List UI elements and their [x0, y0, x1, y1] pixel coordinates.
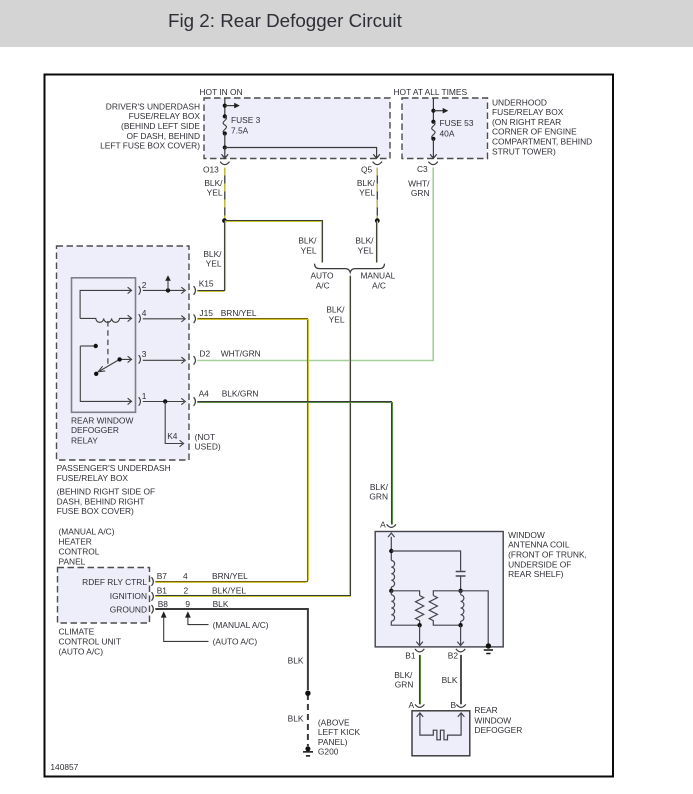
connector B1 (antenna) — [415, 649, 424, 652]
window antenna coil box — [375, 532, 503, 647]
label BLK/YEL at O13 — [204, 178, 223, 198]
svg-text:BLK/: BLK/ — [357, 178, 376, 188]
svg-text:Q5: Q5 — [361, 165, 373, 175]
wire A4 BLK/GRN right and down to antenna coil A — [197, 402, 391, 525]
svg-text:AUTO: AUTO — [310, 271, 334, 281]
header band — [0, 0, 693, 47]
wire: pin2 to K15 connector — [143, 287, 186, 293]
svg-text:BLK/: BLK/ — [355, 236, 374, 246]
label BLK lower — [288, 713, 304, 723]
svg-text:STRUT TOWER): STRUT TOWER) — [492, 146, 556, 156]
svg-text:B2: B2 — [448, 650, 459, 660]
svg-text:B1: B1 — [157, 586, 168, 596]
arrow manual a/c ground — [188, 617, 209, 625]
svg-text:BLK/: BLK/ — [394, 670, 413, 680]
svg-text:GRN: GRN — [369, 492, 388, 502]
svg-text:140857: 140857 — [50, 762, 78, 772]
connector C3 — [428, 162, 437, 165]
svg-text:DEFOGGER: DEFOGGER — [71, 425, 119, 435]
svg-text:BLK/: BLK/ — [370, 482, 389, 492]
relay pin3 contact — [122, 356, 132, 362]
svg-text:BLK: BLK — [288, 656, 304, 666]
wire: B2 exit with down arrow — [457, 625, 464, 645]
svg-text:CORNER OF ENGINE: CORNER OF ENGINE — [492, 127, 577, 137]
node: left junction — [389, 589, 393, 593]
connector D2 — [194, 356, 196, 365]
svg-text:(AUTO A/C): (AUTO A/C) — [213, 637, 258, 647]
svg-text:BLK/: BLK/ — [298, 236, 317, 246]
wire: feed inside underhood box — [432, 98, 434, 122]
svg-text:GRN: GRN — [395, 680, 414, 690]
svg-text:UNDERHOOD: UNDERHOOD — [492, 97, 547, 107]
node: pin1 branch to K4 — [163, 399, 167, 403]
svg-text:B: B — [451, 700, 457, 710]
svg-text:BLK/: BLK/ — [204, 178, 223, 188]
node: feed junction — [223, 104, 227, 108]
svg-text:FUSE BOX COVER): FUSE BOX COVER) — [57, 506, 134, 516]
fuse/relay box (passenger's underdash) — [57, 246, 190, 460]
label DRIVER'S UNDERDASH FUSE/RELAY BOX — [100, 101, 200, 150]
wire: Q5 junction down to brace (BLK/YEL double) — [376, 221, 378, 263]
svg-text:PASSENGER'S UNDERDASH: PASSENGER'S UNDERDASH — [57, 463, 171, 473]
wire: brace output BLK/YEL down to B1 row then left to climate unit — [155, 276, 350, 596]
wire: O13 junction down to K15 (BLK/YEL double) — [197, 221, 224, 291]
svg-text:ANTENNA COIL: ANTENNA COIL — [508, 540, 570, 550]
fuse F53 (FUSE 53 40A) — [431, 120, 435, 124]
svg-text:HOT IN ON: HOT IN ON — [200, 87, 243, 97]
svg-text:BLK: BLK — [288, 713, 304, 723]
label BLK/YEL at Q5 — [357, 178, 376, 198]
relay coil L-coil — [80, 315, 132, 322]
wire: internal ground link — [461, 591, 489, 645]
svg-text:RELAY: RELAY — [71, 435, 98, 445]
node: B1 junction — [417, 623, 421, 627]
svg-text:USED): USED) — [195, 442, 221, 452]
svg-text:COMPARTMENT, BEHIND: COMPARTMENT, BEHIND — [492, 137, 592, 147]
node: pin2 branch junction with up arrow — [166, 288, 170, 292]
relay U1 rear window defogger relay body — [72, 278, 136, 413]
svg-text:A/C: A/C — [372, 281, 386, 291]
svg-text:BLK/: BLK/ — [203, 249, 222, 259]
svg-text:YEL: YEL — [206, 259, 222, 269]
svg-text:PANEL: PANEL — [59, 557, 86, 567]
wire B1 BLK/GRN down to defogger A — [419, 655, 421, 704]
wire: A entry with up arrow — [388, 533, 395, 560]
connector J15 — [194, 315, 196, 324]
label BLK/GRN at B1 — [394, 670, 413, 690]
svg-text:RDEF RLY CTRL: RDEF RLY CTRL — [82, 577, 147, 587]
svg-text:DRIVER'S UNDERDASH: DRIVER'S UNDERDASH — [106, 101, 200, 111]
connector B2 (antenna) — [456, 649, 465, 652]
wire: fuse to bottom junction — [224, 134, 226, 148]
ground (antenna internal) — [486, 643, 491, 648]
node: O13 branch junction — [222, 218, 227, 223]
wire O13 BLK/YEL (dashed black/yellow) — [224, 168, 226, 219]
connector B7 — [152, 577, 154, 586]
svg-text:C3: C3 — [417, 164, 428, 174]
svg-text:REAR WINDOW: REAR WINDOW — [71, 416, 133, 426]
svg-text:BLK: BLK — [213, 599, 229, 609]
relay common line to pin1 — [80, 346, 131, 405]
svg-text:(BEHIND LEFT SIDE: (BEHIND LEFT SIDE — [121, 121, 200, 131]
svg-text:UNDERSIDE OF: UNDERSIDE OF — [508, 559, 571, 569]
svg-text:CONTROL UNIT: CONTROL UNIT — [59, 637, 122, 647]
resistor R2 — [429, 596, 460, 626]
node: Q5 junction — [375, 218, 380, 223]
fuse F3 (FUSE 3 7.5A) — [223, 114, 227, 118]
arrow auto a/c ground — [164, 617, 209, 641]
relay actuation link (dashed) — [107, 321, 109, 366]
relay fixed contact stub — [80, 345, 93, 347]
wire B8 BLK right and down — [155, 609, 308, 684]
wire: fuse 53 down to C3 with arrow — [430, 139, 437, 159]
svg-text:(BEHIND RIGHT SIDE OF: (BEHIND RIGHT SIDE OF — [57, 487, 156, 497]
svg-text:YEL: YEL — [207, 188, 223, 198]
svg-text:WINDOW: WINDOW — [474, 715, 511, 725]
connector O13 — [220, 162, 229, 165]
inductor L2 — [391, 595, 394, 621]
relay pin sockets at case edge — [139, 286, 141, 406]
wire: across box to Q5 drop — [225, 148, 380, 159]
svg-text:4: 4 — [142, 308, 147, 318]
svg-text:B8: B8 — [158, 599, 169, 609]
svg-text:FUSE/RELAY BOX: FUSE/RELAY BOX — [129, 111, 201, 121]
connector Q5 — [373, 162, 382, 165]
svg-text:YEL: YEL — [359, 188, 375, 198]
svg-text:FUSE/RELAY BOX: FUSE/RELAY BOX — [492, 107, 564, 117]
svg-text:YEL: YEL — [301, 245, 317, 255]
svg-text:HEATER: HEATER — [59, 537, 92, 547]
connector A4 — [194, 397, 196, 406]
svg-text:G200: G200 — [318, 746, 339, 756]
svg-text:REAR SHELF): REAR SHELF) — [508, 569, 564, 579]
svg-text:CLIMATE: CLIMATE — [59, 627, 95, 637]
cell 2: resistor R2 with inductor L3 — [433, 591, 460, 596]
wire: down to O13 with arrow — [222, 148, 229, 159]
wire: top link to capacitor — [391, 551, 460, 571]
svg-text:WHT/: WHT/ — [408, 179, 430, 189]
svg-text:MANUAL: MANUAL — [360, 271, 395, 281]
connector B1 — [152, 592, 154, 601]
svg-text:2: 2 — [184, 586, 189, 596]
ground G200 — [305, 746, 310, 751]
svg-text:BLK/: BLK/ — [326, 305, 345, 315]
svg-text:(ON RIGHT REAR: (ON RIGHT REAR — [492, 117, 561, 127]
node: feed junction — [431, 109, 435, 113]
label BLK/GRN above antenna — [369, 482, 388, 502]
svg-text:BLK/YEL: BLK/YEL — [212, 586, 246, 596]
node: B2 junction — [458, 623, 462, 627]
label WHT/GRN at C3 — [408, 179, 430, 199]
connector K15 — [194, 286, 196, 295]
svg-text:WINDOW: WINDOW — [508, 530, 545, 540]
label BLK/YEL at K15 — [203, 249, 222, 269]
svg-text:WHT/GRN: WHT/GRN — [221, 348, 261, 358]
connector A (antenna) — [387, 524, 396, 527]
wire: pin4 to J15 connector — [143, 316, 186, 322]
climate control unit box — [58, 568, 150, 624]
svg-text:A4: A4 — [199, 388, 210, 398]
svg-text:(ABOVE: (ABOVE — [318, 718, 350, 728]
svg-text:BRN/YEL: BRN/YEL — [221, 308, 257, 318]
svg-text:O13: O13 — [203, 165, 219, 175]
wire: pin1 to A4 connector — [143, 398, 186, 404]
wire: Q5 dashed BLK/YEL — [376, 168, 378, 219]
svg-text:B1: B1 — [405, 650, 416, 660]
svg-text:FUSE 53: FUSE 53 — [440, 118, 474, 128]
label BLK upper — [288, 656, 304, 666]
relay switch arm — [98, 360, 118, 371]
svg-text:HOT AT ALL TIMES: HOT AT ALL TIMES — [394, 87, 468, 97]
svg-text:A: A — [409, 700, 415, 710]
inductor L1 (antenna feed coil) — [391, 561, 394, 587]
wire B2 BLK down to defogger B — [460, 655, 462, 704]
capacitor C1 — [456, 572, 466, 577]
inductor L3 — [461, 595, 464, 621]
node: fuse output junction — [223, 145, 227, 149]
resistor R1 — [416, 596, 424, 626]
wire J15 BRN/YEL right and down to B7 — [155, 319, 307, 582]
svg-text:REAR: REAR — [474, 705, 497, 715]
svg-text:(MANUAL A/C): (MANUAL A/C) — [213, 620, 269, 630]
svg-text:FUSE 3: FUSE 3 — [231, 115, 261, 125]
node: capacitor junction — [458, 589, 462, 593]
wire C3 WHT/GRN down and left to D2 — [197, 168, 433, 361]
svg-text:LEFT KICK: LEFT KICK — [318, 727, 361, 737]
svg-text:FUSE/RELAY BOX: FUSE/RELAY BOX — [57, 473, 129, 483]
connector B8 — [152, 605, 154, 614]
svg-text:(MANUAL A/C): (MANUAL A/C) — [59, 527, 115, 537]
node: ground splice junction — [305, 691, 310, 696]
svg-text:9: 9 — [185, 599, 190, 609]
svg-text:CONTROL: CONTROL — [59, 547, 100, 557]
svg-text:4: 4 — [183, 571, 188, 581]
svg-text:Fig 2: Rear Defogger Circuit: Fig 2: Rear Defogger Circuit — [168, 10, 403, 31]
svg-text:LEFT FUSE BOX COVER): LEFT FUSE BOX COVER) — [100, 141, 200, 151]
label BLK/YEL right branch — [355, 236, 374, 256]
svg-text:DASH, BEHIND RIGHT: DASH, BEHIND RIGHT — [57, 496, 145, 506]
label BLK/YEL center — [326, 305, 345, 325]
svg-text:3: 3 — [142, 349, 147, 359]
wire: K4 not used — [165, 402, 183, 447]
svg-text:A: A — [380, 519, 386, 529]
svg-text:A/C: A/C — [316, 281, 330, 291]
svg-text:GROUND: GROUND — [110, 605, 147, 615]
relay internal: pin2 feed line — [80, 287, 132, 318]
cell 1: inductor L2 with resistor R1 — [391, 591, 419, 596]
fuse box (underhood) — [402, 98, 488, 159]
wire: O13 junction right and down to brace (BLK/YEL double) — [225, 221, 323, 263]
wire: arrow to other circuits — [433, 110, 444, 112]
diagram border frame — [45, 75, 614, 777]
svg-text:K15: K15 — [199, 279, 214, 289]
svg-text:DEFOGGER: DEFOGGER — [474, 725, 522, 735]
svg-text:IGNITION: IGNITION — [110, 591, 147, 601]
svg-text:(AUTO A/C): (AUTO A/C) — [59, 646, 104, 656]
svg-text:YEL: YEL — [329, 314, 345, 324]
wire: feed inside driver's box — [224, 98, 226, 116]
svg-text:BLK/GRN: BLK/GRN — [222, 388, 259, 398]
connector A (defogger) — [415, 704, 424, 707]
svg-text:D2: D2 — [199, 348, 210, 358]
svg-text:B7: B7 — [157, 571, 168, 581]
svg-text:(FRONT OF TRUNK,: (FRONT OF TRUNK, — [508, 550, 587, 560]
svg-text:7.5A: 7.5A — [231, 125, 249, 135]
wire: dashed BLK to ground — [307, 684, 309, 746]
brace merge AUTO A/C / MANUAL A/C — [315, 264, 385, 273]
svg-text:OF DASH, BEHIND: OF DASH, BEHIND — [126, 131, 200, 141]
wire: arrow to other circuits — [225, 105, 236, 107]
svg-text:J15: J15 — [199, 308, 213, 318]
node: top junction — [389, 549, 393, 553]
wire: B1 exit with down arrow — [416, 625, 423, 645]
defogger grid element — [417, 713, 465, 740]
svg-text:BRN/YEL: BRN/YEL — [212, 571, 248, 581]
svg-text:YEL: YEL — [358, 245, 374, 255]
svg-text:40A: 40A — [440, 129, 455, 139]
svg-text:1: 1 — [142, 391, 147, 401]
svg-text:K4: K4 — [167, 431, 178, 441]
rear window defogger box — [412, 711, 470, 756]
wire: pin3 to D2 connector — [143, 357, 186, 363]
svg-text:(NOT: (NOT — [195, 432, 215, 442]
svg-text:BLK: BLK — [442, 675, 458, 685]
label BLK/YEL left branch — [298, 236, 317, 256]
svg-text:2: 2 — [142, 280, 147, 290]
fuse box (driver's underdash) — [204, 98, 390, 159]
connector B (defogger) — [456, 704, 465, 707]
svg-text:GRN: GRN — [411, 188, 430, 198]
